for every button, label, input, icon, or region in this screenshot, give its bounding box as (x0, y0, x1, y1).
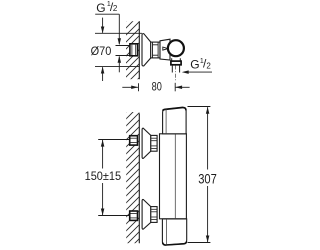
svg-text:150±15: 150±15 (85, 169, 122, 183)
leader line with arrow for outlet G1/2 (184, 71, 212, 73)
escutcheon cone (top view) (142, 34, 151, 66)
bottom escutcheon cone (142, 199, 151, 229)
dimension 150±15 line and arrows (102, 140, 104, 169)
arrow down to pipe top (118, 38, 122, 45)
dimension 80 tick at wall (138, 83, 140, 91)
dimension Ø70 extension line top (95, 32, 142, 34)
svg-text:80: 80 (152, 80, 163, 94)
svg-text:G: G (190, 57, 199, 71)
dimension 80 right arrow (176, 86, 190, 88)
dimension Ø70 arrow up (102, 67, 104, 81)
outlet pipe stub (171, 65, 173, 73)
svg-text:G: G (96, 1, 105, 15)
dimension Ø70 extension line bottom (95, 66, 139, 68)
wall surface line (top view) (138, 21, 140, 79)
wall surface line (bottom view) (138, 113, 140, 243)
dimension 307 line and arrows (207, 107, 209, 169)
dimension 80 left arrow (122, 86, 138, 88)
valve main body (160, 134, 187, 219)
dimension 150±15 extension lines (98, 139, 129, 141)
arrow up to pipe bottom (118, 56, 122, 63)
union nut (top view) (151, 42, 160, 58)
top union nut (151, 135, 157, 151)
outlet centerline (174, 66, 176, 82)
in-wall hex fitting (130, 44, 138, 56)
handle circle (top view) (168, 40, 184, 56)
top escutcheon cone (142, 128, 151, 158)
wall hatch (bottom view) (126, 112, 139, 243)
bottom in-wall hex (130, 211, 138, 220)
supply pipe in wall (116, 46, 131, 56)
body inner line (174, 134, 176, 218)
svg-text:2: 2 (206, 61, 211, 70)
valve body (top view) (160, 39, 170, 60)
leader underline for G1/2 (95, 13, 119, 15)
top in-wall hex (130, 136, 138, 145)
svg-text:307: 307 (198, 171, 217, 186)
svg-text:Ø70: Ø70 (91, 44, 112, 58)
svg-text:2: 2 (113, 4, 118, 13)
dimension Ø70 arrow down (102, 18, 104, 33)
wall hatch (top view) (126, 21, 139, 79)
bottom cap (162, 219, 186, 245)
handle notch marker (163, 47, 168, 50)
top cap (handle) (163, 107, 187, 133)
dimension 307 extension lines (188, 106, 211, 108)
outlet nut below circle (172, 58, 181, 61)
bottom union nut (151, 207, 157, 223)
